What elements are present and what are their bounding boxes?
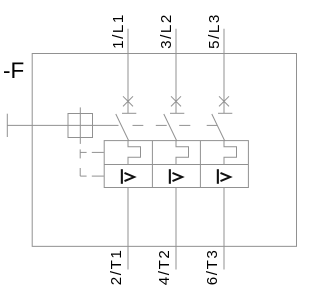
- svg-text:6/T3: 6/T3: [204, 249, 221, 286]
- svg-text:4/T2: 4/T2: [156, 249, 173, 286]
- svg-text:5/L3: 5/L3: [206, 13, 223, 49]
- svg-text:1/L1: 1/L1: [110, 13, 127, 49]
- svg-text:-F: -F: [3, 58, 24, 83]
- svg-text:2/T1: 2/T1: [108, 249, 125, 286]
- svg-text:3/L2: 3/L2: [158, 13, 175, 49]
